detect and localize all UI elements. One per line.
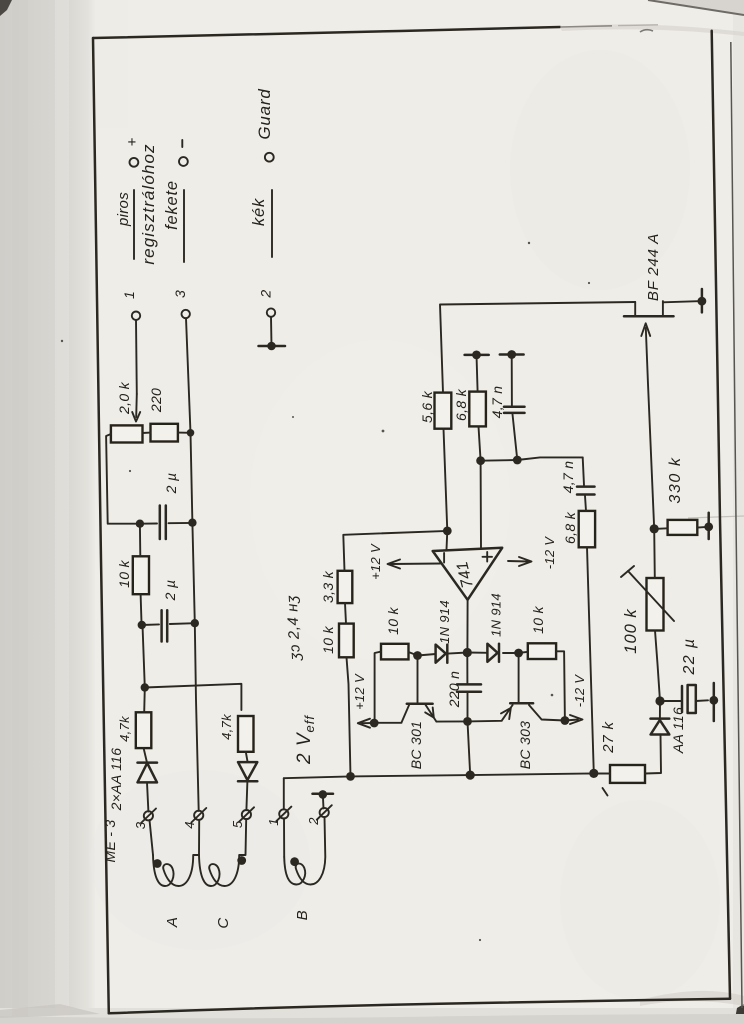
svg-text:regisztrálóhoz: regisztrálóhoz: [139, 143, 158, 264]
svg-text:4,7k: 4,7k: [117, 715, 132, 742]
svg-text:5,6 k: 5,6 k: [419, 390, 435, 423]
wire 5,6k to top corner and FET drain: [440, 302, 635, 393]
node gate / 330k: [650, 524, 659, 533]
guard tap bar above winding 2: [313, 790, 334, 808]
wire main bus: [284, 773, 610, 778]
label fekete with - circle: [163, 140, 188, 262]
guard tap bar at terminal2: [259, 342, 286, 351]
wire gate node to 330k: [654, 527, 667, 530]
wire 10k around to emitter: [375, 652, 381, 723]
svg-text:10 k: 10 k: [116, 559, 132, 587]
capacitor 2u (first): [140, 506, 193, 540]
resistor 2,0k body: [111, 425, 143, 442]
wire 3,3k to minus node: [343, 531, 447, 571]
svg-text:+12 V: +12 V: [368, 543, 383, 580]
rail tap bar 2: [500, 350, 524, 359]
diode AA116 (branch 1): [138, 763, 158, 783]
wire diode node to 10k: [519, 652, 528, 653]
wire 27k to corner: [645, 734, 661, 773]
diode 1N914 (right): [487, 644, 499, 662]
resistor 3,3k body: [338, 571, 353, 603]
wire long gate line with arrow: [641, 323, 654, 529]
svg-text:AA 116: AA 116: [670, 707, 686, 754]
wire bus to 10k chain: [347, 657, 351, 776]
node terminal 1: [132, 312, 140, 320]
wire between 2,0k and 220: [143, 432, 151, 434]
node plus input / filter: [476, 456, 485, 465]
ground bar at FET: [698, 289, 707, 312]
wire plus input: [480, 461, 482, 548]
wire FET source to ground: [663, 301, 702, 302]
svg-text:2: 2: [258, 290, 274, 299]
svg-text:3,3 k: 3,3 k: [320, 570, 336, 603]
winding B: [284, 817, 325, 885]
wire bus to 27k: [594, 772, 610, 774]
svg-text:220: 220: [148, 388, 164, 413]
capacitor 2u (second): [142, 610, 195, 641]
svg-text:2,0 k: 2,0 k: [116, 381, 132, 415]
wire tee to 4,7k branch 2: [145, 684, 242, 710]
svg-text:1N 914: 1N 914: [489, 593, 504, 637]
svg-text:BC 303: BC 303: [517, 721, 533, 770]
label Guard with circle: [255, 88, 274, 161]
scan artifact: top-right paper crease: [648, 0, 744, 16]
scan artifact: bottom-right dark corner: [734, 1004, 744, 1024]
svg-text:1: 1: [121, 291, 137, 299]
label piros with + circle: [115, 137, 141, 259]
ground bar at 22u: [709, 683, 718, 721]
winding pin circle 1: [276, 807, 291, 822]
wire 2u2 node down to rectifier tee: [142, 625, 145, 688]
node 4,7n junction: [513, 456, 522, 465]
svg-text:-12 V: -12 V: [572, 674, 587, 708]
wire op-amp output: [466, 600, 468, 653]
capacitor 22u electrolytic: [660, 685, 708, 713]
wire 220n node to bus: [468, 721, 471, 775]
svg-text:6,8 k: 6,8 k: [562, 511, 578, 544]
wire 4,7k1 to diode1: [144, 748, 147, 763]
svg-text:Guard: Guard: [255, 88, 274, 139]
svg-text:-12 V: -12 V: [542, 536, 557, 570]
node 22u junction: [655, 696, 664, 705]
resistor 6,8k body1: [469, 392, 486, 427]
svg-text:piros: piros: [115, 192, 132, 227]
+12V arrow lower: [352, 673, 379, 728]
capacitor 220n: [457, 653, 481, 722]
svg-text:BF 244 A: BF 244 A: [645, 233, 662, 301]
diode row vertical run: [418, 654, 436, 656]
svg-text:27 k: 27 k: [600, 721, 617, 754]
node diode left / 10k: [413, 651, 422, 660]
left margin streaks: [12, 0, 28, 1024]
wire 4,7n to 6,8k: [585, 496, 586, 511]
svg-text:5: 5: [230, 820, 245, 828]
svg-text:10 k: 10 k: [320, 625, 336, 653]
wire terminal2 stub: [270, 317, 273, 346]
wire minus node to op-amp: [446, 531, 449, 550]
wire tee to 4,7k1: [143, 688, 146, 713]
resistor 330k body: [668, 520, 698, 535]
svg-text:3: 3: [172, 290, 188, 298]
long wire terminal4 to 220 node: [191, 433, 199, 811]
transistor BF244A FET: [624, 301, 674, 316]
svg-text:fekete: fekete: [163, 180, 181, 230]
op-amp 741: [433, 548, 503, 600]
svg-text:2: 2: [306, 817, 321, 826]
svg-text:ʒɔ 2,4 ʜʒ: ʒɔ 2,4 ʜʒ: [284, 595, 304, 662]
resistor 5,6k body: [435, 393, 452, 429]
node 220n / transistor row: [463, 717, 472, 726]
transistor BC301: [374, 704, 467, 723]
node 2u2 left: [138, 621, 146, 629]
wire minus node to 5,6k: [444, 429, 448, 531]
wire AA116 to 22u node: [659, 701, 661, 719]
rail tap bar 1: [465, 351, 489, 360]
node terminal 3: [182, 310, 190, 318]
wire plus node to 6,8k: [479, 426, 481, 460]
wire 10k to diode node: [409, 652, 418, 656]
svg-text:ME - 3: ME - 3: [102, 819, 118, 862]
svg-text:1: 1: [266, 818, 281, 826]
scan artifact: top-left corner mark: [0, 0, 12, 16]
frame right edge: [712, 31, 730, 999]
resistor 10k body: [133, 556, 149, 594]
svg-text:B: B: [294, 910, 311, 920]
node diode right / 10k: [514, 649, 523, 658]
svg-text:A: A: [164, 917, 181, 928]
svg-text:330 k: 330 k: [667, 456, 684, 503]
resistor 10k chain body: [339, 624, 354, 658]
svg-text:4,7 n: 4,7 n: [489, 386, 505, 419]
svg-text:2 µ: 2 µ: [162, 580, 178, 602]
scan artifact: faint pencil line right middle: [688, 516, 744, 518]
capacitor 4,7n (series): [577, 457, 595, 494]
wire pin1 to winding B: [283, 818, 285, 857]
node 2u1 left: [136, 520, 144, 528]
svg-text:+12 V: +12 V: [352, 673, 367, 710]
svg-text:6,8 k: 6,8 k: [453, 388, 469, 421]
frame top edge: [93, 27, 560, 38]
op-amp -12V arrow: [508, 536, 557, 570]
stray pen tick near 27k: [603, 788, 608, 796]
wire BC301 base: [417, 656, 419, 703]
wire 10k to 2u2 node: [141, 594, 142, 626]
svg-text:BC 301: BC 301: [408, 721, 424, 770]
winding A: [153, 855, 199, 886]
wire diode2 to winding pin 5: [246, 781, 247, 810]
wire pin4 to windings: [198, 820, 200, 855]
wire bus corner to winding pin1: [283, 778, 285, 809]
winding pin circle 5: [239, 807, 254, 822]
node terminal 2: [267, 308, 275, 316]
scan artifact: bottom edge shadow: [0, 1014, 744, 1024]
diode AA116 (branch 2): [238, 762, 257, 781]
diode AA116 (output): [651, 719, 670, 735]
wire 2,0k left lead down to 2u node: [106, 434, 140, 524]
outer right paper edge line: [731, 42, 742, 1008]
capacitor 4,7n (plus filter): [504, 355, 525, 461]
potentiometer arrow: [621, 566, 674, 621]
winding B phase dot: [290, 857, 299, 866]
node 2u1 right on long wire: [188, 519, 196, 527]
winding pin circle 2: [317, 805, 332, 820]
svg-text:2×AA 116: 2×AA 116: [108, 748, 124, 812]
wire 6,8k to bus: [587, 547, 594, 773]
paper texture blotches: [510, 50, 690, 290]
svg-text:C: C: [215, 917, 232, 928]
wire 2u1 node to 10k: [139, 524, 141, 557]
wire diode1 to winding pin 3: [147, 782, 148, 811]
winding A phase dot: [153, 859, 162, 868]
wire pin3 to winding A: [150, 820, 154, 855]
svg-text:220 n: 220 n: [446, 671, 462, 709]
wire 220 to node: [178, 432, 191, 434]
trimmer wiper arrow: [135, 394, 138, 417]
label kek: [250, 190, 272, 257]
scan artifact: small pencil mark top right: [640, 30, 653, 32]
op-amp +12V arrow: [368, 543, 441, 580]
resistor 27k body: [610, 765, 645, 783]
ground bar at 330k: [704, 513, 713, 539]
svg-text:kék: kék: [250, 198, 268, 226]
node diode centre: [463, 648, 472, 657]
winding pin circle 3: [141, 809, 156, 824]
potentiometer 100k body: [647, 578, 664, 631]
dirt specks: [61, 242, 590, 941]
svg-text:4: 4: [182, 821, 197, 829]
resistor 10k bc301: [381, 644, 409, 660]
node 220/terminal3 junction: [187, 429, 195, 437]
wire 330k to ground: [697, 526, 708, 529]
winding C: [199, 819, 246, 886]
resistor 10k bc303: [528, 643, 556, 659]
svg-text:4,7k: 4,7k: [219, 713, 234, 740]
wire plus node vertical filter run: [481, 457, 583, 460]
svg-text:4,7 n: 4,7 n: [560, 461, 576, 494]
transistor BC303: [468, 703, 565, 721]
wire BC303 base: [518, 653, 520, 702]
winding C phase dot: [237, 856, 246, 865]
wire 6,8k to rail tap: [477, 355, 478, 392]
wire 10k to 3,3k: [345, 603, 346, 624]
svg-text:2 µ: 2 µ: [163, 473, 179, 495]
wire terminal3 down to 220 node: [186, 318, 191, 433]
resistor 220 body: [151, 424, 178, 442]
svg-text:100 k: 100 k: [622, 608, 640, 653]
resistor 6,8k body2: [579, 511, 595, 547]
svg-text:1N 914: 1N 914: [437, 600, 452, 644]
wire terminal1 to trimmer arrow: [135, 320, 138, 394]
wire 100k to gate node: [653, 529, 656, 578]
svg-text:3: 3: [133, 821, 148, 829]
wire 4,7k2 to diode2: [246, 752, 248, 762]
svg-text:22 µ: 22 µ: [681, 637, 698, 675]
wire op-amp output down to diode node: [466, 652, 468, 654]
winding pin circle 4: [191, 808, 206, 823]
diode 1N914 (left): [436, 645, 448, 663]
-12V arrow lower: [561, 674, 588, 725]
node bus / 220n: [466, 771, 475, 780]
svg-text:10 k: 10 k: [385, 606, 401, 634]
resistor 4,7k body2: [238, 716, 254, 752]
wire 10k to -12V corner: [556, 651, 565, 720]
svg-text:10 k: 10 k: [530, 605, 546, 633]
frame left edge: [93, 38, 109, 1013]
resistor 4,7k body1: [136, 712, 152, 748]
node rectifier tee: [141, 683, 149, 691]
node bus / 6,8k feedback: [589, 769, 598, 778]
frame bottom edge: [109, 999, 730, 1014]
wire 22u node to 100k: [655, 631, 660, 702]
node 2u2 right on long wire: [191, 619, 199, 627]
node bus / 10k chain: [346, 772, 355, 781]
node op-amp minus input: [443, 527, 452, 536]
